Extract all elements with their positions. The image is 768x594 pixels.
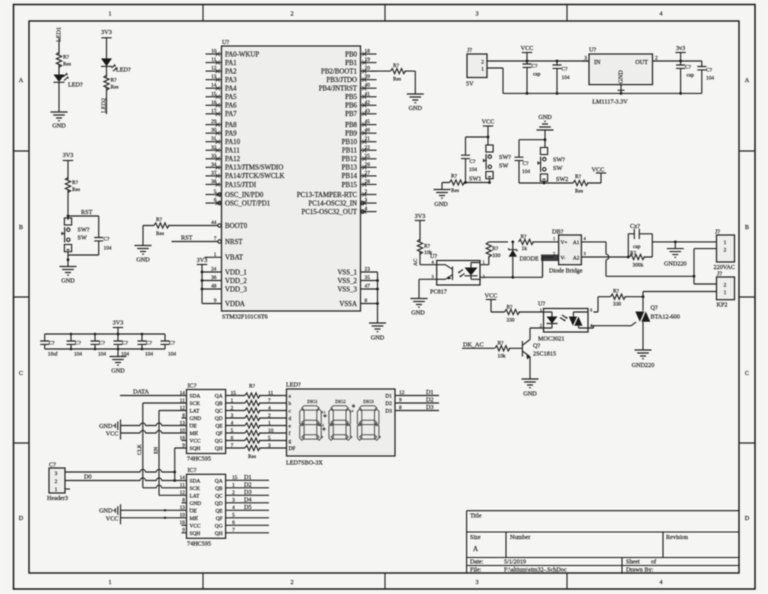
svg-text:Res: Res [575, 189, 583, 195]
svg-text:3: 3 [268, 443, 271, 449]
svg-text:SQH: SQH [190, 446, 201, 452]
ground GND (cap bank) [117, 349, 119, 357]
pin 41 (PB5) [345, 91, 376, 101]
svg-text:PC14-OSC32_IN: PC14-OSC32_IN [308, 200, 357, 207]
svg-text:LED7SBO-3X: LED7SBO-3X [286, 460, 323, 467]
svg-text:SW: SW [78, 235, 87, 242]
svg-text:PB7: PB7 [345, 111, 357, 118]
pin 32 (PA11) [206, 145, 241, 155]
svg-text:R?: R? [72, 180, 79, 186]
svg-text:PA15/JTDI: PA15/JTDI [225, 182, 257, 189]
svg-text:PB11: PB11 [342, 148, 358, 155]
svg-text:IC?: IC? [188, 383, 197, 390]
pin 45 (PB8) [345, 119, 376, 129]
svg-text:R?: R? [424, 244, 431, 250]
svg-text:2: 2 [232, 490, 235, 496]
wire resistor to RST node [67, 190, 69, 221]
regulator U? LM1117-3.3V [582, 47, 660, 106]
svg-text:Res: Res [393, 77, 401, 83]
wire hop A1 over A2 [581, 242, 694, 276]
svg-text:b: b [289, 401, 292, 407]
svg-text:QG: QG [215, 523, 223, 529]
pin 11 (SCK IC1) [180, 398, 223, 407]
svg-text:4: 4 [232, 505, 235, 511]
svg-text:C?: C? [562, 67, 569, 73]
pin 12 (LAT IC2) [180, 490, 223, 499]
svg-text:R?: R? [393, 63, 400, 69]
svg-text:BTA12-600: BTA12-600 [651, 314, 680, 321]
svg-text:QF: QF [216, 516, 223, 522]
pin 9 (display D2) [385, 397, 439, 407]
svg-text:16: 16 [211, 100, 217, 106]
pin 9 (SQH IC2) [182, 528, 223, 537]
svg-text:11: 11 [268, 390, 273, 396]
svg-text:1: 1 [231, 398, 234, 404]
svg-text:10: 10 [211, 49, 217, 55]
svg-text:11: 11 [211, 57, 216, 63]
svg-text:LED?: LED? [68, 82, 83, 89]
svg-text:104: 104 [168, 352, 176, 358]
svg-text:SW?: SW? [78, 227, 90, 234]
pin 22 (PB11) [342, 145, 377, 155]
svg-text:SDA: SDA [190, 394, 201, 400]
wire VDD rail [202, 265, 222, 304]
wire QA-QH row 3 to resistor [226, 410, 287, 412]
wire IC2 output row 8 [226, 532, 269, 534]
7-segment digit 1 [300, 406, 322, 441]
wire IC2 output row 6 [226, 517, 269, 519]
pin 6 (OSC_OUT/PD1) [206, 198, 271, 208]
svg-text:SCK: SCK [190, 486, 201, 492]
svg-text:R?: R? [521, 234, 528, 240]
capacitor C? 104 (bank 5) [138, 334, 154, 358]
svg-text:VCC: VCC [521, 45, 534, 52]
pin 44 (BOOT0) [211, 220, 248, 230]
node junction zener bottom [511, 276, 514, 279]
svg-text:OSC_IN/PD0: OSC_IN/PD0 [225, 192, 264, 199]
svg-text:R?: R? [498, 340, 505, 346]
svg-text:Header3: Header3 [47, 495, 68, 502]
pin 9 (SQH IC1) [182, 443, 222, 452]
svg-text:VCC: VCC [190, 523, 201, 529]
pin 28 (PB15) [342, 179, 377, 189]
pin 14 (SDA IC1) [180, 390, 223, 399]
wire resistor to LED [58, 64, 60, 74]
svg-text:7: 7 [268, 398, 271, 404]
resistor R? Res (segment D) [245, 415, 260, 420]
switch SW? SW (SW2) [538, 148, 548, 182]
ground GND (PC817) [411, 299, 428, 308]
wire IC2 output row 5 [226, 509, 269, 511]
svg-text:VCC: VCC [106, 516, 119, 523]
svg-text:GND: GND [136, 257, 150, 264]
svg-text:GND: GND [371, 335, 385, 342]
svg-text:4: 4 [659, 579, 662, 586]
svg-text:1: 1 [268, 420, 271, 426]
svg-text:13: 13 [211, 74, 217, 80]
svg-text:DIG2: DIG2 [335, 399, 346, 404]
svg-text:R?: R? [575, 174, 582, 180]
svg-text:VCC: VCC [482, 119, 495, 126]
pin 20 (PB2/BOOT1) [321, 66, 377, 76]
svg-text:GND: GND [411, 310, 425, 317]
svg-text:VDD_3: VDD_3 [225, 286, 247, 293]
pin 18 (PB0) [345, 49, 376, 59]
capacitor C? 104 (input) [553, 61, 570, 93]
svg-text:Res: Res [111, 85, 119, 91]
capacitor Cx? cap (snubber) [628, 223, 652, 257]
svg-text:48: 48 [211, 284, 217, 290]
dot L3 [352, 404, 356, 408]
svg-text:QC: QC [215, 493, 223, 499]
resistor R? Res (segment G) [245, 438, 260, 443]
svg-text:C: C [745, 370, 749, 377]
svg-text:R?: R? [156, 217, 163, 223]
svg-text:3: 3 [55, 471, 58, 477]
svg-text:43: 43 [365, 108, 371, 114]
svg-text:104: 104 [104, 246, 112, 252]
svg-text:12: 12 [399, 390, 405, 396]
svg-text:SQH: SQH [190, 531, 201, 537]
node RST junction [67, 215, 70, 218]
svg-text:KP2: KP2 [717, 302, 728, 309]
node junction below switch [67, 258, 70, 261]
pin 24 (VDD_1) [211, 267, 247, 277]
svg-text:3: 3 [475, 579, 478, 586]
svg-text:4: 4 [365, 206, 368, 212]
wire SW1 left branch [466, 137, 489, 155]
svg-text:C?: C? [99, 341, 106, 347]
wire LED to gnd [58, 82, 60, 112]
svg-text:LED?: LED? [286, 382, 301, 389]
svg-text:QF: QF [216, 431, 223, 437]
wire QA-QH row 6 to resistor [226, 432, 287, 434]
wire bridge A2 to RC combo [581, 256, 652, 258]
svg-text:IN: IN [594, 59, 601, 66]
svg-text:27: 27 [365, 170, 371, 176]
pin 16 (VCC IC1) [180, 435, 223, 444]
svg-text:VCC: VCC [485, 293, 498, 300]
svg-text:10uf: 10uf [48, 351, 58, 358]
svg-text:14: 14 [211, 83, 217, 89]
svg-text:QB: QB [215, 401, 223, 407]
wire VCC to pin10 with hops [121, 430, 187, 433]
LED D? LED? (circuit 2) [101, 58, 131, 73]
svg-text:1: 1 [55, 487, 58, 493]
svg-text:8: 8 [365, 298, 368, 304]
svg-text:GND220: GND220 [632, 362, 655, 369]
pin 13 (OE IC2) [180, 505, 224, 514]
svg-text:PB8: PB8 [345, 122, 357, 129]
svg-text:42: 42 [365, 100, 371, 106]
wire header pin3 to chain [65, 469, 175, 472]
svg-text:J?: J? [467, 47, 472, 54]
svg-text:15: 15 [232, 475, 238, 481]
power VCC symbol (IC1 MR) [106, 427, 121, 440]
svg-text:NRST: NRST [225, 239, 243, 246]
svg-text:V-: V- [561, 255, 566, 261]
capacitor C? 104 (bank 3) [91, 334, 107, 358]
svg-text:3: 3 [232, 498, 235, 504]
svg-text:U?: U? [222, 39, 229, 46]
svg-text:6: 6 [232, 520, 235, 526]
wire RST to NRST [172, 241, 218, 243]
svg-text:Revision: Revision [666, 534, 688, 541]
resistor R? Res (segment B) [245, 400, 260, 405]
svg-text:PA8: PA8 [225, 122, 237, 129]
svg-text:10k: 10k [498, 353, 506, 359]
svg-text:Diode Bridge: Diode Bridge [549, 268, 583, 275]
pin 29 (PA8) [206, 119, 238, 129]
svg-text:SCK: SCK [190, 401, 201, 407]
svg-text:PB0: PB0 [345, 51, 357, 58]
svg-text:PA4: PA4 [225, 86, 237, 93]
capacitor C? 104 (output) [697, 61, 714, 93]
pin 21 (PB10) [342, 136, 377, 146]
pin 3 (PC14-OSC32_IN) [308, 198, 376, 208]
svg-text:PB14: PB14 [342, 173, 358, 180]
svg-text:B: B [19, 224, 23, 231]
pin 19 (PB1) [345, 57, 376, 67]
svg-text:SW?: SW? [499, 154, 511, 161]
ground GND (transistor) [522, 379, 539, 388]
pin 26 (PB13) [342, 162, 377, 172]
ground GND (reset) [60, 267, 77, 276]
svg-text:PA14/JTCK/SWCLK: PA14/JTCK/SWCLK [225, 173, 284, 180]
pin 8 (GND IC2) [182, 498, 223, 507]
capacitor C? 104 (bank 6) [161, 334, 177, 358]
svg-text:QD: QD [215, 416, 223, 422]
svg-text:2: 2 [290, 11, 293, 18]
svg-text:QH: QH [215, 446, 223, 452]
svg-text:VCC: VCC [190, 439, 201, 445]
svg-text:2: 2 [481, 59, 484, 65]
wire PC817 pin1 up through R330 [480, 242, 508, 265]
svg-text:R?: R? [492, 246, 499, 252]
ground GND symbol (IC2 OE) [99, 504, 120, 517]
wire MOC pin2 to transistor collector [530, 328, 544, 340]
wire header pin2 D0 to IC2 pin14 [65, 478, 187, 481]
pin 39 (PB3/JTDO) [326, 74, 376, 84]
svg-text:Size: Size [470, 534, 481, 541]
resistor R? Res (segment E) [245, 423, 260, 428]
resistor R? Res (SW2) [573, 180, 588, 185]
svg-text:PC817: PC817 [430, 289, 447, 296]
wire R1k to bridge V+ [533, 241, 559, 243]
svg-text:19: 19 [365, 57, 371, 63]
svg-text:9: 9 [182, 528, 185, 534]
wire SW1 bottom rail [442, 183, 490, 190]
svg-text:QE: QE [215, 424, 223, 430]
wire QA-QH row 5 to resistor [226, 425, 287, 427]
connector J? 220VAC [714, 229, 736, 272]
svg-text:C?: C? [49, 341, 56, 347]
wire LED to resistor [106, 66, 108, 77]
svg-text:D2: D2 [385, 401, 392, 407]
svg-text:RST: RST [181, 235, 193, 242]
svg-text:C?: C? [523, 161, 530, 167]
pin 9 (VDDA) [214, 298, 245, 308]
svg-text:8: 8 [182, 413, 185, 419]
svg-text:DIODE: DIODE [520, 256, 539, 263]
svg-text:D2: D2 [426, 397, 434, 404]
wire VCC to IC2 pin10 [121, 517, 187, 519]
wire V- over blob [543, 257, 554, 277]
svg-text:2: 2 [231, 405, 234, 411]
svg-text:Title: Title [470, 513, 482, 520]
svg-text:LAT: LAT [190, 493, 201, 499]
resistor R? Res (segment C) [245, 408, 260, 413]
svg-text:36: 36 [211, 275, 217, 281]
svg-text:23: 23 [365, 267, 371, 273]
svg-text:22: 22 [365, 145, 371, 151]
svg-text:8: 8 [182, 498, 185, 504]
svg-text:SDA: SDA [190, 478, 201, 484]
svg-text:38: 38 [211, 179, 217, 185]
wire BOOT0 [143, 226, 218, 246]
svg-text:D4: D4 [244, 497, 252, 504]
wire chain QH to IC2 SDA [175, 448, 187, 481]
pin 47 (VSS_3) [337, 284, 370, 294]
svg-text:PB3/JTDO: PB3/JTDO [326, 77, 357, 84]
svg-text:PB13: PB13 [342, 165, 358, 172]
wire switch to gnd [67, 252, 69, 267]
svg-text:25: 25 [365, 153, 371, 159]
svg-text:PB10: PB10 [342, 139, 358, 146]
svg-text:3: 3 [231, 413, 234, 419]
wire GND to IC2 pin13 [121, 509, 187, 511]
svg-text:R?: R? [451, 174, 458, 180]
LED D? LED? (circuit 1) [54, 73, 84, 89]
capacitor C? 104 (bank 2) [67, 334, 83, 358]
svg-text:4: 4 [659, 11, 662, 18]
optotriac U? MOC3021 [538, 301, 594, 343]
svg-text:VSS_1: VSS_1 [337, 269, 357, 276]
capacitor C? 104 (SW1) [461, 155, 470, 158]
svg-text:OE: OE [190, 424, 198, 430]
svg-text:1: 1 [724, 240, 727, 246]
svg-text:OSC_OUT/PD1: OSC_OUT/PD1 [225, 200, 271, 207]
svg-text:2: 2 [268, 413, 271, 419]
ground GND symbol (IC1 OE) [99, 420, 120, 433]
svg-text:5: 5 [214, 189, 217, 195]
svg-text:2SC1815: 2SC1815 [533, 351, 556, 358]
svg-text:D3: D3 [426, 404, 434, 411]
svg-text:Number: Number [510, 534, 530, 541]
pin 25 (PB12) [342, 153, 377, 163]
wire IC2 output row 4 [226, 502, 269, 504]
svg-text:QE: QE [215, 508, 223, 514]
power VCC symbol (IC2 MR) [106, 511, 121, 524]
wire combo to 220VAC pin1 [652, 241, 716, 243]
7-segment digit 2 [329, 406, 351, 441]
pin 40 (PB4/JNTRST) [319, 83, 377, 93]
pin 11 (SCK IC2) [180, 483, 223, 492]
wire QA-QH row 2 to resistor [226, 402, 287, 404]
svg-text:C?: C? [169, 341, 176, 347]
svg-text:1: 1 [108, 11, 111, 18]
svg-text:8: 8 [399, 405, 402, 411]
pin 8 (display D3) [385, 404, 439, 414]
svg-text:PB9: PB9 [345, 130, 357, 137]
svg-text:C: C [19, 370, 23, 377]
svg-text:D1: D1 [385, 394, 392, 400]
svg-text:1: 1 [481, 67, 484, 73]
svg-text:40: 40 [365, 83, 371, 89]
pin 27 (PB14) [342, 170, 377, 180]
7-segment digit 3 [357, 406, 379, 441]
svg-text:LED?: LED? [116, 67, 131, 74]
svg-text:6: 6 [214, 198, 217, 204]
svg-text:45: 45 [365, 119, 371, 125]
svg-text:41: 41 [365, 91, 371, 97]
wire QA-QH row 4 to resistor [226, 417, 287, 419]
resistor R? 330 (PC817 out) [486, 242, 491, 257]
svg-text:PA5: PA5 [225, 94, 237, 101]
svg-text:Res: Res [72, 187, 80, 193]
svg-text:PB5: PB5 [345, 94, 357, 101]
pin 8 (GND IC1) [182, 413, 223, 422]
diode D? zener [509, 242, 567, 277]
svg-text:PB1: PB1 [345, 60, 357, 67]
svg-text:PB12: PB12 [342, 156, 358, 163]
svg-text:QG: QG [215, 439, 223, 445]
svg-text:D1: D1 [244, 474, 252, 481]
svg-text:L3: L3 [350, 409, 354, 413]
svg-text:28: 28 [365, 179, 371, 185]
wire IC2 output row 3 [226, 494, 269, 496]
resistor R? 10k (AC detect) [417, 239, 422, 254]
svg-text:GND: GND [538, 114, 552, 121]
svg-text:GND: GND [190, 416, 202, 422]
svg-text:11: 11 [180, 483, 185, 489]
wire base with R 10k [462, 347, 522, 349]
resistor R? 330 (MOC input) [505, 309, 520, 314]
svg-text:Res: Res [156, 231, 164, 237]
pin 15 (PA5) [206, 91, 238, 101]
svg-text:C?: C? [104, 237, 111, 243]
svg-text:GND: GND [99, 423, 113, 430]
svg-text:7: 7 [232, 528, 235, 534]
svg-text:D2: D2 [244, 482, 252, 489]
pin 8 (VSSA) [339, 298, 367, 308]
pin 2 (PC13-TAMPER-RTC) [297, 189, 377, 199]
svg-text:R?: R? [613, 289, 620, 295]
capacitor C? cap (input electrolytic) [523, 61, 541, 93]
svg-text:6: 6 [231, 435, 234, 441]
svg-text:PB6: PB6 [345, 103, 357, 110]
svg-text:A: A [473, 546, 478, 553]
svg-text:3V3: 3V3 [197, 257, 208, 264]
pin 10 (MR IC1) [180, 428, 223, 437]
svg-text:14: 14 [180, 475, 186, 481]
pin 13 (PA3) [206, 74, 238, 84]
title block texts [470, 513, 688, 574]
svg-text:12: 12 [211, 66, 217, 72]
svg-text:VCC: VCC [106, 431, 119, 438]
svg-text:37: 37 [211, 170, 217, 176]
wire SW2 bottom rail [519, 173, 601, 183]
switch SW? SW (SW1) [484, 145, 494, 179]
svg-text:46: 46 [365, 128, 371, 134]
ground GND (LED1) [51, 112, 68, 121]
svg-text:C?: C? [470, 159, 477, 165]
svg-text:OUT: OUT [635, 59, 648, 66]
svg-text:R?: R? [507, 305, 514, 311]
svg-text:7: 7 [231, 443, 234, 449]
wire PC817 pin2 to bridge V- [480, 257, 554, 277]
svg-text:GND: GND [61, 278, 75, 285]
